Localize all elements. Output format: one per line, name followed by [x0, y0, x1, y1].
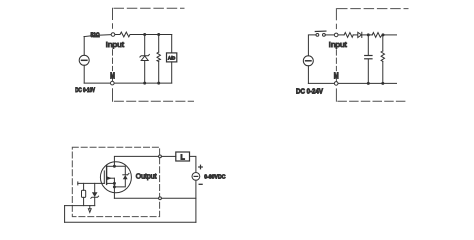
wire L box to corner down to source: [190, 156, 196, 172]
junction dot node D top: [382, 33, 385, 36]
svg-text:Input: Input: [329, 40, 348, 49]
source wire to output terminal: [114, 197, 158, 199]
resistor R5 column wire top: [382, 35, 384, 51]
junction dot node C top: [367, 33, 370, 36]
svg-text:DC 0-24V: DC 0-24V: [296, 86, 323, 95]
module boundary dash above input node: [335, 24, 337, 28]
source V2 minus: [306, 60, 311, 62]
ground open arrow: [88, 209, 91, 213]
load L box: [176, 152, 190, 161]
diode D2 triangle outline: [358, 32, 362, 37]
module boundary dashed bottom horizontal: [338, 100, 407, 102]
wire top-left sloping segment under fuse: [84, 35, 111, 37]
bottom return rail: [65, 221, 196, 223]
module boundary dash below M label: [112, 79, 114, 81]
M terminal node: [334, 82, 338, 86]
module boundary dashed top horizontal: [114, 7, 184, 9]
ground stub: [89, 206, 91, 209]
svg-text:DC 0-10V: DC 0-10V: [75, 88, 95, 94]
wire switch to input node: [325, 34, 334, 36]
channel bar: [106, 166, 108, 185]
switch S1 contact left: [316, 34, 319, 37]
switch S1 lever: [315, 30, 326, 32]
source V1 minus: [82, 59, 87, 61]
drain wire up and to output terminal: [114, 156, 158, 166]
resistor R5 vertical zigzag: [381, 51, 384, 61]
drain stub: [107, 165, 115, 167]
zener D1 triangle outline apex up: [141, 56, 148, 61]
body diode cathode bar: [123, 174, 128, 176]
resistor R6 box: [82, 190, 86, 197]
body arrow: [107, 176, 112, 180]
module boundary long dash below M node: [335, 89, 337, 101]
svg-text:L: L: [180, 154, 185, 161]
wire input node to R3: [338, 34, 344, 36]
junction dot diode bottom: [113, 185, 116, 188]
svg-text:52Ω: 52Ω: [91, 32, 101, 39]
input terminal node: [334, 33, 338, 37]
junction dot node C bottom: [367, 82, 370, 85]
module boundary dashed top horizontal: [338, 8, 409, 10]
zener D3 stub bottom: [94, 197, 96, 205]
wire terminal to L box: [161, 155, 175, 157]
right return vertical: [195, 180, 197, 222]
svg-text:M: M: [334, 71, 339, 80]
body stub: [107, 177, 115, 179]
module boundary long dash below M node: [112, 89, 114, 102]
resistor R2 column wire top: [158, 35, 160, 53]
zener D1 wire bottom: [144, 61, 146, 84]
A/D box: [167, 53, 177, 62]
gate bar: [103, 171, 105, 184]
source V1 circle: [79, 55, 89, 65]
junction dot zener bottom: [143, 82, 146, 85]
capacitor C1 wire top: [367, 35, 369, 55]
module dashed box: [72, 147, 159, 216]
source V2 circle: [303, 56, 313, 66]
bottom rail: [308, 82, 396, 84]
wire input node to resistor R1: [115, 34, 120, 36]
svg-text:A/D: A/D: [168, 56, 176, 61]
junction dot source stub: [113, 182, 116, 185]
gate wire: [78, 182, 105, 184]
module boundary dashed bottom horizontal: [114, 100, 193, 102]
source V3 minus: [194, 175, 198, 177]
junction dot zener top: [143, 33, 146, 36]
zener D3 bar with wings: [91, 196, 99, 198]
zener D3 triangle: [92, 192, 98, 197]
resistor R1 horizontal zigzag: [120, 32, 130, 37]
plus sign: [200, 165, 202, 169]
body diode branch bottom: [114, 179, 125, 187]
gate input tick: [77, 182, 79, 185]
junction dot R2 top: [157, 33, 160, 36]
body diode branch top: [114, 166, 125, 175]
left return vertical: [64, 206, 66, 223]
svg-text:M: M: [110, 71, 115, 80]
MOSFET Q1 body circle: [100, 162, 131, 193]
resistor R5 wire bottom: [382, 61, 384, 83]
capacitor C1 plate top: [365, 55, 372, 57]
diode D2 cathode bar: [361, 32, 363, 37]
resistor R2 vertical zigzag: [157, 52, 160, 61]
resistor R4 horizontal zigzag: [372, 33, 382, 38]
module boundary dashed vertical middle: [112, 50, 114, 71]
junction dot R2 bottom: [157, 82, 160, 85]
source stub: [107, 182, 115, 184]
zener D1 column wire top: [144, 35, 146, 56]
wire source up to switch: [308, 35, 316, 56]
resistor R6 stub bottom: [83, 197, 85, 205]
zener D3 stub top: [94, 183, 96, 192]
svg-text:Output: Output: [136, 173, 157, 180]
switch S1 contact right: [323, 34, 326, 37]
output terminal minus: [159, 197, 162, 200]
module boundary dash below M label: [335, 80, 337, 82]
gate return junction wire: [65, 205, 95, 207]
minus sign: [199, 183, 202, 185]
bottom rail: [84, 82, 172, 84]
wire output terminal minus to source return: [161, 197, 196, 199]
body diode triangle: [123, 175, 128, 179]
wire R1 to AD corner: [130, 34, 172, 36]
junction dot drain: [113, 165, 116, 168]
svg-text:0-60VDC: 0-60VDC: [204, 175, 226, 181]
M terminal node: [111, 81, 115, 85]
module boundary dashed vertical middle: [335, 50, 337, 71]
corner down to A/D: [171, 35, 173, 53]
module boundary corner dash vertical: [335, 9, 337, 20]
capacitor C1 plate bottom: [365, 58, 372, 60]
wire R4 to rail end: [382, 34, 396, 36]
wire diode to node C: [362, 34, 372, 36]
module boundary dash above input node: [112, 24, 114, 28]
capacitor C1 wire bottom: [367, 59, 369, 83]
resistor R3 horizontal zigzag: [344, 33, 353, 38]
junction dot node D bottom: [381, 82, 384, 85]
wire source to bottom rail: [307, 66, 309, 84]
output terminal plus: [159, 155, 162, 158]
body diode cathode wing: [128, 173, 129, 175]
input terminal node: [111, 33, 115, 37]
svg-text:Input: Input: [106, 40, 125, 49]
zener D1 cathode bar with wings: [140, 54, 150, 57]
wire corner to source top: [83, 37, 85, 56]
module boundary corner dash vertical: [112, 8, 114, 19]
resistor R6 stub top: [83, 183, 85, 190]
A/D to bottom rail: [171, 62, 173, 83]
wire source bottom to rail: [83, 65, 85, 83]
source V3 circle: [192, 173, 200, 181]
wire R3 to diode: [353, 34, 358, 36]
source vertical: [113, 178, 115, 198]
resistor R2 wire bottom: [158, 62, 160, 84]
